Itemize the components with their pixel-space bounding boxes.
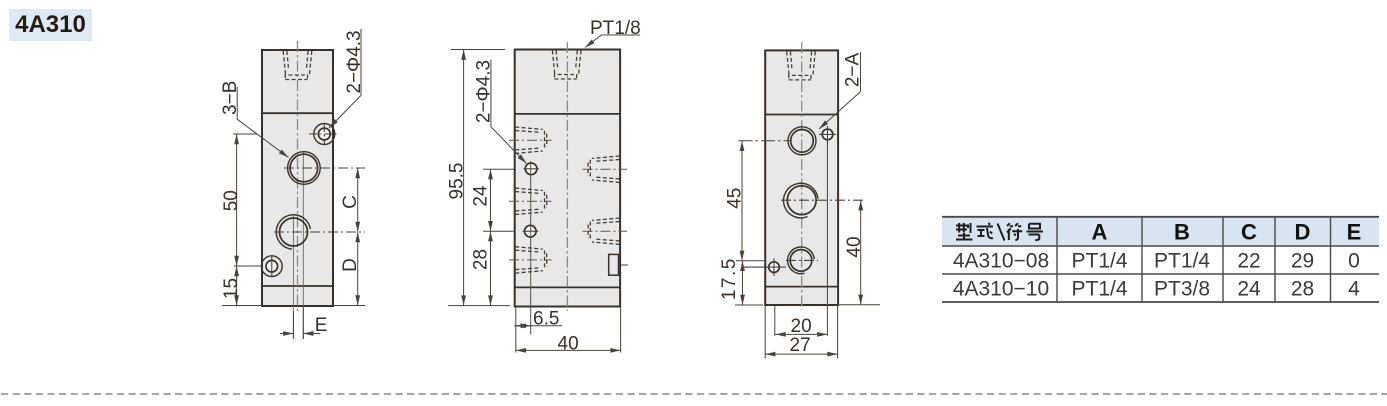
svg-text:B: B: [1174, 220, 1190, 245]
tapped hole in cap (hidden thread): [283, 51, 312, 80]
backslash: [998, 224, 1005, 241]
port B horizontal centreline: [284, 167, 365, 169]
mounting hole Φ4.3 upper: [525, 163, 537, 175]
PT1/8 tapped hole in cap: [552, 51, 581, 80]
right port thread 1: [588, 156, 620, 182]
vertical centreline: [297, 41, 299, 311]
svg-text:17.5: 17.5: [719, 257, 740, 300]
lower port horizontal centreline: [274, 231, 365, 233]
svg-text:95.5: 95.5: [446, 163, 467, 200]
dimension 40 (bottom): [620, 307, 622, 353]
svg-text:24: 24: [471, 185, 492, 207]
dimension 95.5 (far left): [451, 49, 505, 51]
left port thread 2: [515, 188, 547, 214]
valve body (front view): [515, 50, 620, 307]
svg-text:E: E: [1347, 220, 1362, 245]
svg-text:27: 27: [790, 335, 811, 356]
mounting hole 2-Φ4.3 top right: [318, 128, 330, 140]
svg-text:29: 29: [1291, 250, 1314, 273]
mounting hole 2-Φ4.3 bottom left: [266, 260, 278, 272]
dimension 15 (left): [222, 305, 262, 307]
svg-text:45: 45: [725, 188, 746, 209]
base plate joint line: [765, 286, 838, 288]
svg-text:D: D: [1295, 220, 1311, 245]
glyph 型: [956, 223, 973, 240]
left port thread 1: [515, 127, 547, 153]
vertical centreline: [801, 42, 803, 310]
svg-text:PT1/4: PT1/4: [1154, 250, 1210, 273]
svg-text:24: 24: [1237, 278, 1261, 301]
svg-text:E: E: [315, 315, 328, 336]
dimension 6.5 (bottom): [515, 307, 517, 353]
vertical line through mounting holes: [530, 161, 532, 335]
dimension 17.5 (left): [735, 304, 763, 306]
table row 4A310-10: [953, 278, 1360, 301]
title block 4A310: [9, 9, 92, 41]
base plate joint line: [262, 285, 333, 287]
svg-text:A: A: [1092, 220, 1108, 245]
dimension 45 (left): [739, 140, 792, 142]
svg-text:6.5: 6.5: [533, 309, 559, 330]
port circle 2: [787, 186, 816, 215]
port centre vertical line (lower port): [292, 216, 294, 339]
svg-text:28: 28: [1291, 278, 1314, 301]
dimension D (right): [333, 305, 365, 307]
svg-text:50: 50: [221, 190, 242, 211]
svg-text:20: 20: [791, 316, 812, 337]
dimension 28: [490, 231, 492, 305]
svg-text:2−Φ4.3: 2−Φ4.3: [344, 30, 365, 93]
svg-text:40: 40: [844, 236, 865, 257]
dimension 40 (right): [838, 304, 880, 306]
glyph 式: [977, 223, 994, 238]
port circle 3: [790, 250, 812, 272]
extension line from hole 2-A down to 20-dimension: [826, 140, 828, 336]
dimension 20 (bottom): [774, 306, 776, 336]
glyph 符: [1007, 223, 1022, 240]
dimension E (bottom): [292, 311, 294, 339]
right port thread 2: [588, 218, 620, 244]
port centre vertical line (B port): [302, 152, 304, 339]
svg-text:C: C: [1241, 220, 1257, 245]
mounting hole 2-A upper right: [822, 129, 833, 140]
pilot cap joint line: [262, 112, 333, 114]
svg-text:PT3/8: PT3/8: [1154, 278, 1210, 301]
port 2 horizontal centreline: [781, 199, 866, 201]
port circle 1: [791, 130, 814, 153]
left port thread 3: [515, 247, 547, 273]
pilot cap joint line: [515, 113, 620, 115]
port B (threaded, double circle): [290, 154, 318, 182]
bottom dashed separator: [1, 393, 1387, 395]
svg-text:4A310−08: 4A310−08: [953, 250, 1049, 273]
dimension C (right): [357, 168, 359, 232]
svg-text:4: 4: [1348, 278, 1360, 301]
table horizontal rules: [942, 216, 1379, 218]
dimension 24: [483, 168, 514, 170]
tapped hole in cap (hidden thread): [787, 51, 816, 80]
table header background: [942, 217, 1379, 246]
svg-text:PT1/4: PT1/4: [1071, 250, 1127, 273]
glyph 号: [1027, 224, 1044, 240]
svg-text:C: C: [340, 195, 361, 209]
valve body (left view): [262, 50, 333, 306]
connector notch on right edge: [609, 254, 619, 275]
header letters A-E: [1092, 220, 1362, 245]
mounting hole 2-A lower left: [769, 262, 780, 273]
header 型式\符号 (drawn glyphs): [956, 223, 1043, 241]
table row 4A310-08: [953, 250, 1360, 273]
dimension 50 (left): [233, 133, 258, 135]
svg-text:28: 28: [471, 249, 492, 270]
valve body (right side view): [765, 50, 838, 305]
svg-text:22: 22: [1237, 250, 1260, 273]
dimension 27 (bottom): [764, 306, 766, 359]
pilot cap joint line: [765, 114, 838, 116]
svg-text:15: 15: [221, 278, 242, 299]
svg-text:4A310−10: 4A310−10: [953, 278, 1049, 301]
table column separators: [1056, 217, 1058, 302]
svg-text:0: 0: [1348, 250, 1360, 273]
base plate joint line: [515, 286, 620, 288]
mounting hole Φ4.3 lower: [525, 225, 537, 237]
svg-text:PT1/4: PT1/4: [1071, 278, 1127, 301]
svg-text:PT1/8: PT1/8: [590, 18, 641, 39]
svg-text:3−B: 3−B: [220, 81, 241, 115]
port 3 horizontal centreline: [786, 259, 818, 261]
lower port (threaded): [280, 218, 308, 246]
svg-text:40: 40: [558, 334, 579, 355]
svg-text:D: D: [340, 258, 361, 272]
vertical centreline: [566, 42, 568, 311]
